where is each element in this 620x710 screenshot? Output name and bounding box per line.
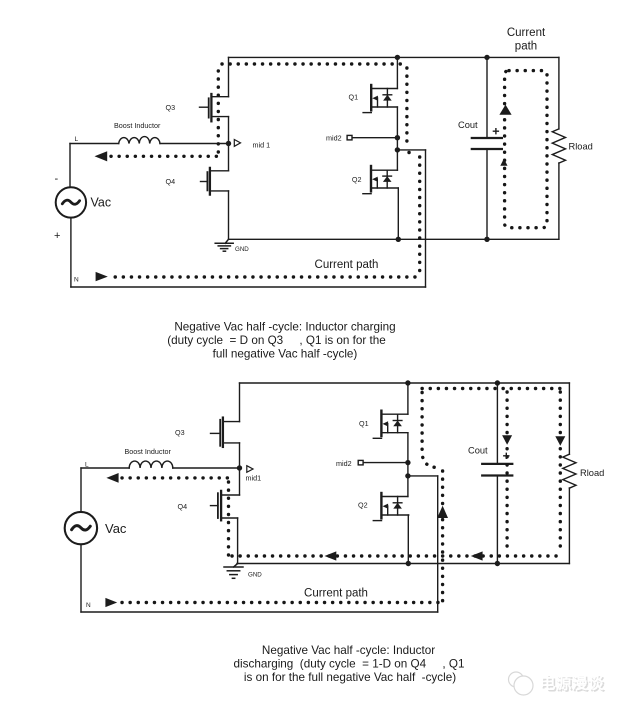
- svg-text:Current: Current: [507, 27, 546, 39]
- wire branch to Q2 drain (bottom fig): [407, 476, 409, 497]
- node mid2 (top): [395, 135, 400, 140]
- svg-text:Current path: Current path: [304, 588, 368, 600]
- arrow down on Cout loop left: [502, 435, 512, 445]
- node Q1 drain / top rail (bottom fig): [405, 380, 410, 385]
- wire Q4 source to gnd rail: [228, 191, 230, 239]
- wire Q3 drain to rail: [228, 57, 230, 96]
- wire dotted under inductor (bottom fig): [122, 476, 229, 479]
- svg-text:L: L: [75, 136, 79, 143]
- transistor Q2: [363, 166, 398, 194]
- caption between figures: [167, 321, 395, 361]
- node Cout bottom (bottom fig): [495, 561, 500, 566]
- wire Q4 drain from mid1: [228, 144, 230, 171]
- arrow right on N return: [96, 272, 108, 281]
- svg-text:电源漫谈: 电源漫谈: [540, 674, 605, 693]
- caption below bottom figure: [234, 644, 465, 684]
- voltage source Vac (top): [56, 187, 86, 217]
- inductor Boost Inductor (top): [119, 137, 160, 144]
- wire L to inductor: [70, 143, 119, 145]
- wire N return to mid2: [397, 149, 425, 151]
- wire inductor to mid1: [160, 143, 229, 145]
- svg-text:L: L: [85, 462, 89, 469]
- arrow right on N return (bottom fig): [105, 598, 117, 607]
- wire mid2 stub (bottom fig): [363, 462, 408, 464]
- arrow up on discharge branch: [437, 506, 448, 518]
- svg-text:N: N: [74, 277, 79, 284]
- voltage source Vac (bottom): [65, 512, 97, 544]
- svg-text:Cout: Cout: [458, 120, 478, 130]
- svg-text:Q3: Q3: [166, 103, 176, 112]
- svg-text:GND: GND: [248, 572, 262, 579]
- node mid2 (bottom fig): [405, 460, 410, 465]
- svg-text:Q4: Q4: [166, 177, 176, 186]
- svg-text:Cout: Cout: [468, 446, 488, 456]
- svg-text:mid2: mid2: [336, 459, 352, 468]
- wire dotted left vertical at Q3: [217, 64, 220, 152]
- svg-text:GND: GND: [235, 246, 249, 253]
- pin mid2 terminal square (bottom fig): [358, 460, 363, 465]
- svg-text:N: N: [86, 602, 91, 609]
- svg-text:is on for the full negative Va: is on for the full negative Vac half -cy…: [244, 671, 456, 684]
- svg-text:Q2: Q2: [358, 501, 368, 510]
- resistor Rload (bottom): [563, 454, 576, 488]
- BOTTOM FIGURE: [65, 383, 576, 612]
- transistor Q4 (bottom): [211, 491, 240, 520]
- node Q1 drain / top rail: [395, 55, 400, 60]
- wire dotted Q4 leg vertical: [227, 482, 230, 556]
- wire Cout bottom lead: [486, 149, 488, 239]
- node mid2 branch: [395, 147, 400, 152]
- wire branch to Q2 drain: [396, 150, 398, 170]
- svg-text:Q2: Q2: [352, 175, 362, 184]
- svg-text:Q4: Q4: [178, 502, 188, 511]
- wire right edge lower (bottom fig): [568, 488, 570, 564]
- wire bottom rail (bottom fig): [237, 563, 569, 565]
- svg-text:Negative Vac half -cycle: Indu: Negative Vac half -cycle: Inductor charg…: [174, 321, 395, 334]
- transistor Q1: [363, 85, 397, 113]
- capacitor Cout (top): [472, 137, 502, 139]
- svg-text:(duty cycle = D on Q3 , Q: (duty cycle = D on Q3 , Q1 is on for the: [167, 334, 386, 347]
- arrows top figure: [95, 105, 512, 282]
- node Cout top (bottom fig): [495, 380, 500, 385]
- node mid1 (top): [226, 141, 231, 146]
- wire Q4 drain from mid1 (bottom fig): [239, 468, 241, 495]
- svg-text:Q3: Q3: [175, 428, 185, 437]
- arrow left on gnd-rail dotted (right): [471, 551, 483, 560]
- svg-text:Q1: Q1: [349, 93, 359, 102]
- svg-text:path: path: [515, 41, 537, 53]
- arrow left on gnd-rail dotted (left): [325, 551, 337, 560]
- wire bottom rail: [229, 238, 559, 240]
- capacitor Cout (bottom): [482, 463, 512, 465]
- wire dotted above gnd rail: [232, 554, 560, 557]
- svg-text:Boost Inductor: Boost Inductor: [125, 447, 172, 456]
- svg-text:Rload: Rload: [580, 468, 604, 478]
- wire dotted mid2 jog: [409, 151, 417, 154]
- wire right edge lower: [558, 163, 560, 239]
- labels bottom figure: [85, 419, 369, 609]
- wire Q2 source to gnd rail: [397, 188, 399, 239]
- wire Q1 source to mid2: [396, 107, 398, 138]
- junction dots top figure: [226, 55, 490, 242]
- wire top rail (bottom fig): [240, 382, 570, 384]
- svg-text:Boost Inductor: Boost Inductor: [114, 121, 161, 130]
- wire N return vertical: [425, 150, 427, 287]
- wire N return to mid2 (bottom fig): [408, 475, 438, 477]
- svg-text:discharging (duty cycle = 1-: discharging (duty cycle = 1-D on Q4 , Q1: [234, 658, 465, 671]
- wire Q1 source to mid2 (bottom fig): [407, 433, 409, 463]
- wire Vac top lead: [69, 144, 71, 188]
- arrow left under inductor (bottom fig): [106, 473, 118, 483]
- wire bottom return (bottom fig): [81, 611, 438, 613]
- node mid1 (bottom fig): [237, 465, 242, 470]
- wire dotted under top rail (bottom fig): [422, 387, 560, 390]
- arrow open at mid1 (bottom fig): [247, 466, 253, 473]
- svg-text:mid1: mid1: [246, 474, 262, 483]
- pin mid2 terminal square: [347, 135, 352, 140]
- wire dotted bottom return: [111, 275, 415, 278]
- transistor Q4: [201, 168, 229, 195]
- svg-text:full negative Vac half -cycle): full negative Vac half -cycle): [213, 348, 358, 361]
- node Q2 source / gnd rail (bottom fig): [406, 561, 411, 566]
- arrows bottom figure: [105, 435, 565, 607]
- labels top figure: [74, 93, 361, 284]
- svg-text:Rload: Rload: [569, 142, 593, 152]
- wire Q1 drain from rail (bottom fig): [407, 383, 409, 414]
- node Cout top: [484, 55, 489, 60]
- wire Cout top lead: [486, 57, 488, 138]
- arrow left under inductor: [95, 151, 108, 161]
- wire mid2 to branch: [396, 138, 398, 150]
- transistor Q3: [200, 94, 229, 121]
- wire Vac top lead (bottom fig): [80, 468, 82, 512]
- wire top rail: [229, 56, 559, 58]
- arrow up in Cout loop (small): [500, 159, 507, 166]
- svg-text:+: +: [54, 230, 60, 242]
- svg-text:Q1: Q1: [359, 419, 369, 428]
- current path dotted lines, bottom figure: [121, 389, 560, 603]
- wire Q3 source to mid1 (bottom fig): [239, 443, 241, 468]
- wire mid2 to branch (bottom fig): [407, 463, 409, 476]
- svg-text:Vac: Vac: [91, 196, 112, 210]
- wire Cout top lead (bottom fig): [496, 383, 498, 464]
- svg-text:mid2: mid2: [326, 134, 342, 143]
- wire Q1 drain from rail: [396, 57, 398, 88]
- svg-text:-: -: [55, 173, 59, 185]
- wire dotted down to bottom: [418, 157, 421, 277]
- wire Vac bottom lead: [70, 218, 72, 287]
- wire dotted Q1 leg vertical: [405, 68, 408, 146]
- wire inductor to mid1 (bottom fig): [173, 467, 240, 469]
- junction dots bottom figure: [237, 380, 500, 566]
- inductor Boost Inductor (bottom): [129, 461, 173, 468]
- wire bottom return: [71, 286, 426, 288]
- wire L to inductor (bottom fig): [81, 467, 129, 469]
- wire dotted Cout loop right vertical: [559, 392, 562, 552]
- logo watermark icon: [509, 672, 534, 695]
- wire right edge upper: [558, 57, 560, 128]
- transistor Q2 (bottom): [373, 493, 408, 521]
- wire Q3 source to mid1: [228, 117, 230, 144]
- wire dotted mid branch vertical lower: [441, 471, 444, 601]
- wire right edge upper (bottom fig): [568, 383, 570, 454]
- arrow open at mid1 (top): [234, 140, 240, 147]
- wire dotted Cout loop left vertical: [505, 392, 508, 552]
- ground GND (bottom): [224, 564, 243, 579]
- svg-text:Negative Vac half -cycle: Indu: Negative Vac half -cycle: Inductor: [262, 644, 435, 657]
- arrow up in Cout loop (large): [499, 105, 511, 115]
- node Q2 source / gnd rail: [396, 237, 401, 242]
- ground GND (top): [215, 239, 233, 251]
- transistor Q3 (bottom): [211, 418, 240, 447]
- wire mid2 stub: [352, 137, 398, 139]
- wire Q3 drain to rail (bottom fig): [239, 383, 241, 422]
- transistor Q1 (bottom): [373, 411, 408, 439]
- node Cout bottom: [484, 237, 489, 242]
- wire dotted under top rail: [222, 62, 407, 65]
- wire N return vertical (bottom fig): [437, 476, 439, 612]
- wire dotted mid branch vertical upper: [422, 393, 438, 468]
- node mid2 branch (bottom fig): [405, 473, 410, 478]
- wire Q2 source to gnd rail (bottom fig): [407, 515, 409, 564]
- wire Vac bottom lead (bottom fig): [80, 544, 82, 612]
- resistor Rload (top): [552, 129, 565, 163]
- current path dotted lines, top figure: [111, 64, 547, 277]
- svg-text:Vac: Vac: [105, 521, 127, 536]
- wire dotted N return (bottom fig): [121, 601, 438, 604]
- arrow down on Cout loop right: [555, 436, 565, 446]
- wire dotted under inductor: [111, 155, 218, 158]
- wire Q4 source to gnd rail (bottom fig): [237, 518, 239, 564]
- wire Cout bottom lead (bottom fig): [496, 476, 498, 564]
- svg-text:Current path: Current path: [315, 259, 379, 271]
- svg-text:mid 1: mid 1: [253, 141, 271, 150]
- wire dotted Cout/Rload loop: [505, 71, 547, 228]
